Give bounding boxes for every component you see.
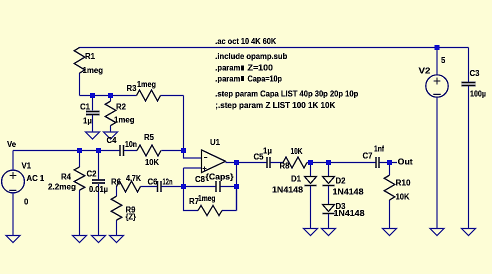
- svg-text:12n: 12n: [163, 178, 173, 187]
- svg-text:.param: .param: [215, 63, 240, 72]
- svg-text:0.01µ: 0.01µ: [89, 185, 108, 194]
- svg-text:2.2meg: 2.2meg: [48, 183, 76, 192]
- svg-text:C4: C4: [107, 136, 118, 145]
- svg-text:0: 0: [24, 197, 29, 206]
- svg-text:R3: R3: [127, 84, 138, 93]
- svg-text:1meg: 1meg: [137, 80, 156, 89]
- svg-text:C3: C3: [470, 69, 481, 78]
- svg-text:V2: V2: [419, 66, 432, 75]
- svg-text:R2: R2: [116, 102, 127, 111]
- svg-text:C8: C8: [195, 175, 206, 184]
- svg-text:R6: R6: [111, 178, 122, 187]
- svg-text:1N4148: 1N4148: [333, 187, 365, 196]
- svg-text:Capa=10p: Capa=10p: [248, 74, 283, 83]
- svg-text:10K: 10K: [145, 158, 159, 167]
- svg-text:1µ: 1µ: [83, 116, 92, 125]
- svg-text:R10: R10: [396, 178, 412, 187]
- svg-text:1meg: 1meg: [198, 194, 216, 203]
- svg-text:100µ: 100µ: [470, 89, 486, 98]
- svg-text:1nf: 1nf: [374, 145, 384, 154]
- svg-text:10n: 10n: [125, 140, 137, 149]
- svg-text:1meg: 1meg: [114, 115, 135, 124]
- svg-text:10K: 10K: [291, 147, 303, 156]
- svg-text:{Z}: {Z}: [126, 213, 137, 222]
- svg-text:U1: U1: [210, 138, 221, 147]
- svg-text:Out: Out: [398, 158, 413, 167]
- svg-text:D2: D2: [336, 176, 347, 185]
- svg-text:C6: C6: [148, 178, 159, 187]
- svg-text:R8: R8: [280, 162, 291, 171]
- svg-text:.step param Capa LIST 40p 30p: .step param Capa LIST 40p 30p 20p 10p: [215, 89, 358, 98]
- svg-text:1meg: 1meg: [83, 66, 104, 75]
- svg-text:;.step param Z LIST 100 1K 10K: ;.step param Z LIST 100 1K 10K: [215, 101, 335, 110]
- svg-text:R1: R1: [85, 52, 96, 61]
- svg-text:C1: C1: [80, 102, 91, 111]
- svg-text:.include opamp.sub: .include opamp.sub: [215, 52, 287, 61]
- svg-text:5: 5: [441, 56, 446, 65]
- svg-text:R5: R5: [144, 133, 155, 142]
- svg-text:4.7K: 4.7K: [126, 174, 141, 183]
- svg-text:{Caps}: {Caps}: [206, 172, 234, 181]
- svg-text:.param: .param: [215, 74, 240, 83]
- svg-text:C7: C7: [363, 152, 373, 161]
- svg-text:Ve: Ve: [7, 140, 17, 149]
- svg-text:C2: C2: [87, 169, 98, 178]
- svg-text:1N4148: 1N4148: [272, 185, 304, 194]
- svg-text:AC 1: AC 1: [27, 174, 45, 183]
- svg-text:Z=100: Z=100: [248, 63, 274, 72]
- svg-text:1N4148: 1N4148: [334, 209, 366, 218]
- svg-text:D1: D1: [291, 174, 302, 183]
- svg-text:V1: V1: [22, 162, 32, 171]
- svg-text:10K: 10K: [396, 192, 410, 201]
- svg-text:1µ: 1µ: [263, 146, 272, 155]
- svg-text:.ac oct 10 4K 60K: .ac oct 10 4K 60K: [215, 37, 276, 46]
- svg-text:R4: R4: [61, 172, 72, 181]
